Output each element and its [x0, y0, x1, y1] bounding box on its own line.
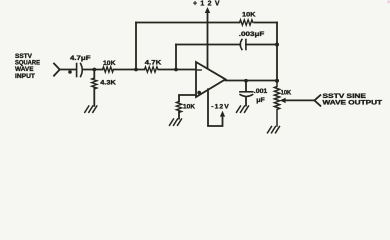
- wire op-amp V- pin: [208, 89, 223, 126]
- node B junction dot (feedback tap): [134, 68, 138, 72]
- potentiometer R6 10K: [274, 81, 279, 126]
- svg-text:WAVE OUTPUT: WAVE OUTPUT: [323, 100, 383, 107]
- plus input junction dot: [197, 91, 201, 95]
- node C junction dot (.003uF tap): [174, 68, 178, 72]
- ground (below R3): [85, 106, 97, 112]
- wire .003uF branch horizontal: [176, 44, 277, 46]
- resistor R3 4.3K to ground: [92, 70, 97, 106]
- svg-text:μF: μF: [256, 97, 265, 104]
- capacitor C3 .001uF to ground: [240, 81, 253, 106]
- wire feedback right vertical down to output: [276, 23, 278, 81]
- svg-text:10K: 10K: [281, 90, 292, 97]
- ground (below R5): [170, 119, 182, 125]
- svg-text:-12V: -12V: [211, 104, 229, 111]
- label SSTV SQUARE WAVE INPUT: [15, 53, 41, 80]
- label SSTV SINE WAVE OUTPUT: [323, 93, 383, 107]
- wire R5 to ground: [178, 112, 180, 119]
- wire C1 to node A: [82, 69, 102, 71]
- output off-page arrow: [314, 95, 320, 106]
- svg-text:4.7K: 4.7K: [145, 60, 162, 67]
- node D junction dot (feedback join): [275, 43, 279, 47]
- svg-text:4.3K: 4.3K: [100, 79, 116, 86]
- svg-text:.003μF: .003μF: [239, 31, 264, 38]
- node A junction dot: [92, 68, 96, 72]
- wire R1 to node B: [114, 69, 145, 71]
- resistor R5 10K (non-inverting to ground): [176, 102, 181, 113]
- wire wiper to output arrow: [285, 99, 315, 101]
- polarity dot at C1: [68, 70, 72, 74]
- -12V arrow: [220, 111, 225, 117]
- wire .003uF branch vertical (node C up): [175, 45, 177, 70]
- resistor R4 10K (feedback): [240, 20, 253, 25]
- pot wiper arrow: [280, 98, 286, 103]
- input off-page arrow: [54, 64, 60, 76]
- page artifact (orange fleck, top right edge): [387, 0, 390, 3]
- ground (below R6): [268, 127, 280, 133]
- node E junction dot (C3 tap): [244, 79, 248, 83]
- svg-text:+12V: +12V: [193, 0, 220, 7]
- svg-text:4.7μF: 4.7μF: [70, 55, 91, 62]
- capacitor C1 4.7uF: [77, 64, 83, 77]
- svg-text:10K: 10K: [183, 104, 195, 111]
- wire feedback left vertical (node B up): [135, 23, 137, 70]
- resistor R2 4.7K: [145, 67, 158, 72]
- node F junction dot (output/feedback/pot): [275, 79, 279, 83]
- capacitor C2 .003uF: [240, 40, 246, 50]
- svg-text:.001: .001: [254, 88, 268, 95]
- op-amp U1: [196, 62, 226, 97]
- svg-text:INPUT: INPUT: [15, 73, 35, 80]
- wire non-inverting input: [179, 95, 196, 102]
- wire feedback top horizontal: [136, 22, 277, 24]
- wire R2 to op-amp inverting input: [159, 69, 196, 71]
- wire op-amp output: [226, 80, 278, 82]
- svg-text:10K: 10K: [242, 12, 256, 19]
- minus sign (inverting input): [198, 69, 202, 71]
- ground (below C3): [237, 106, 249, 112]
- +12V arrow: [205, 7, 210, 13]
- wire input arrow to capacitor C1: [60, 69, 76, 71]
- wire +12V to op-amp V+ pin: [207, 12, 209, 69]
- svg-text:10K: 10K: [103, 60, 116, 67]
- resistor R1 10K (series input): [103, 67, 114, 72]
